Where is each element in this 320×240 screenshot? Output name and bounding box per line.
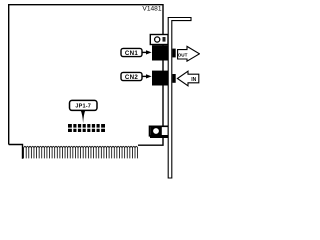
svg-text:V1481: V1481	[142, 5, 161, 12]
svg-text:JP1-7: JP1-7	[75, 104, 91, 110]
svg-text:CN1: CN1	[125, 50, 138, 57]
svg-text:CN2: CN2	[125, 74, 138, 81]
svg-text:IN: IN	[191, 77, 196, 83]
svg-text:OUT: OUT	[178, 52, 188, 57]
